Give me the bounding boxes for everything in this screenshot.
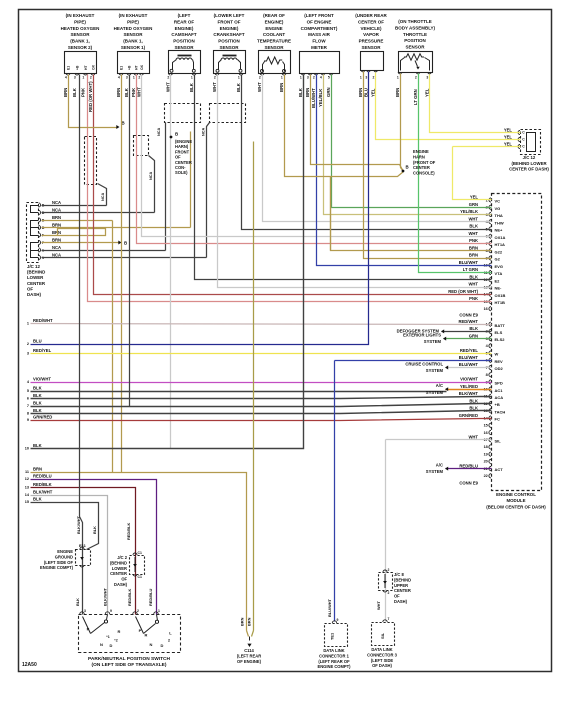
svg-text:5: 5 (27, 389, 29, 393)
svg-text:2: 2 (415, 76, 417, 80)
svg-text:BRN: BRN (52, 222, 61, 227)
svg-text:1: 1 (82, 76, 84, 80)
svg-text:A/C: A/C (436, 462, 443, 467)
svg-text:OD2: OD2 (495, 366, 504, 371)
svg-text:YEL/RED: YEL/RED (460, 384, 478, 389)
svg-text:BODY ASSEMBLY): BODY ASSEMBLY) (395, 25, 436, 30)
svg-text:BLK: BLK (236, 82, 241, 92)
svg-text:PNK: PNK (469, 238, 478, 243)
svg-text:16: 16 (484, 431, 488, 435)
svg-text:RED/BLK: RED/BLK (33, 482, 52, 487)
svg-text:RED (OR WHT): RED (OR WHT) (88, 81, 93, 112)
svg-text:NCA: NCA (52, 245, 61, 250)
svg-text:BLU/WHT: BLU/WHT (459, 260, 479, 265)
svg-text:MODULE: MODULE (506, 498, 525, 503)
svg-text:C114: C114 (244, 648, 254, 653)
svg-text:FC: FC (495, 417, 500, 422)
svg-text:(BANK 1,: (BANK 1, (70, 39, 90, 44)
svg-text:SYSTEM: SYSTEM (424, 339, 442, 344)
svg-text:C1: C1 (138, 551, 142, 555)
svg-text:ENGINE: ENGINE (413, 149, 429, 154)
svg-text:CENTER OF: CENTER OF (358, 19, 384, 24)
svg-text:D: D (161, 643, 164, 648)
svg-text:DASH): DASH) (27, 292, 41, 297)
svg-text:WHT: WHT (212, 82, 217, 92)
svg-text:12: 12 (25, 477, 29, 481)
svg-text:RED/WHT: RED/WHT (33, 318, 53, 323)
svg-text:J/C 8: J/C 8 (394, 572, 405, 577)
svg-text:ACT: ACT (495, 467, 504, 472)
svg-text:REV: REV (495, 359, 504, 364)
svg-text:SIL: SIL (380, 632, 385, 639)
svg-text:CONN E9: CONN E9 (459, 481, 478, 486)
svg-text:GRN: GRN (469, 333, 478, 338)
svg-text:SPD: SPD (495, 381, 503, 386)
svg-text:SENSOR 1): SENSOR 1) (121, 45, 146, 50)
svg-text:BLK: BLK (33, 401, 42, 406)
svg-text:ELS: ELS (495, 330, 503, 335)
svg-text:+B: +B (75, 65, 79, 70)
svg-text:BLK/WHT: BLK/WHT (459, 391, 479, 396)
svg-text:R: R (118, 629, 121, 634)
svg-text:SYSTEM: SYSTEM (426, 368, 444, 373)
svg-text:18: 18 (484, 445, 488, 449)
svg-text:REAR OF: REAR OF (174, 19, 195, 24)
svg-text:CENTER: CENTER (394, 588, 411, 593)
svg-text:9: 9 (337, 618, 339, 622)
svg-text:NCA: NCA (202, 128, 206, 136)
svg-text:THROTTLE: THROTTLE (403, 32, 427, 37)
svg-text:VTA: VTA (495, 271, 503, 276)
svg-text:ENGINE COMPT): ENGINE COMPT) (318, 664, 352, 669)
svg-text:7: 7 (388, 617, 390, 621)
svg-text:SYSTEM: SYSTEM (426, 469, 444, 474)
svg-text:SENSOR 2): SENSOR 2) (68, 45, 93, 50)
svg-text:5: 5 (328, 76, 330, 80)
svg-text:(LEFT SIDE: (LEFT SIDE (371, 658, 394, 663)
svg-text:3: 3 (74, 76, 76, 80)
svg-text:G2: G2 (495, 257, 501, 262)
svg-text:GRN: GRN (326, 87, 331, 97)
svg-text:SOLE): SOLE) (175, 170, 188, 175)
svg-text:YEL/BLK: YEL/BLK (460, 209, 478, 214)
svg-text:TACH: TACH (495, 409, 506, 414)
svg-text:LT GRN: LT GRN (463, 267, 478, 272)
svg-text:BLK: BLK (72, 87, 77, 97)
svg-text:6: 6 (27, 397, 29, 401)
svg-text:4: 4 (65, 76, 67, 80)
svg-text:2: 2 (388, 591, 390, 595)
svg-text:20: 20 (484, 460, 488, 464)
svg-text:CONNECTOR 1: CONNECTOR 1 (319, 653, 349, 658)
svg-text:2: 2 (214, 76, 216, 80)
svg-text:2: 2 (259, 76, 261, 80)
svg-text:1: 1 (238, 76, 240, 80)
svg-text:CENTER: CENTER (413, 165, 430, 170)
svg-text:VEHICLE): VEHICLE) (360, 26, 382, 31)
svg-text:GRN/RED: GRN/RED (33, 415, 52, 420)
svg-text:RED/BLU: RED/BLU (148, 589, 153, 606)
svg-text:BLK: BLK (469, 406, 478, 411)
svg-text:(LOWER LEFT: (LOWER LEFT (214, 13, 245, 18)
svg-text:BRN: BRN (63, 88, 68, 97)
svg-text:ENGINE): ENGINE) (175, 26, 194, 31)
svg-text:WHT: WHT (257, 82, 262, 92)
svg-text:4: 4 (320, 76, 322, 80)
svg-text:POSITION: POSITION (173, 39, 195, 44)
svg-text:YEL: YEL (504, 141, 513, 146)
svg-text:(IN EXHAUST: (IN EXHAUST (66, 13, 95, 18)
svg-text:CRUISE CONTROL: CRUISE CONTROL (405, 361, 443, 366)
svg-text:1: 1 (158, 609, 160, 613)
svg-text:PRESSURE: PRESSURE (359, 39, 384, 44)
svg-text:ENGINE: ENGINE (57, 549, 73, 554)
svg-text:3: 3 (426, 76, 428, 80)
svg-text:BLK/WHT: BLK/WHT (76, 515, 81, 534)
svg-text:CONN E9: CONN E9 (459, 313, 478, 318)
svg-text:W: W (495, 352, 499, 357)
svg-text:BLU/WHT: BLU/WHT (311, 88, 316, 108)
svg-text:YEL: YEL (425, 88, 430, 97)
svg-text:(LEFT REAR OF: (LEFT REAR OF (318, 659, 350, 664)
svg-text:ACA: ACA (495, 395, 504, 400)
svg-text:SENSOR: SENSOR (123, 32, 143, 37)
svg-text:BRN: BRN (52, 215, 61, 220)
svg-text:DASH): DASH) (394, 599, 408, 604)
svg-text:NCA: NCA (52, 207, 61, 212)
svg-text:HT1A: HT1A (495, 242, 506, 247)
svg-text:WHT: WHT (468, 282, 478, 287)
svg-text:13: 13 (25, 486, 29, 490)
svg-text:BLU/WHT: BLU/WHT (327, 598, 332, 617)
svg-text:NE+: NE+ (495, 228, 504, 233)
svg-text:BRN: BRN (52, 230, 61, 235)
svg-text:(BEHIND: (BEHIND (27, 270, 45, 275)
svg-text:HEATED OXYGEN: HEATED OXYGEN (61, 26, 100, 31)
svg-text:POSITION: POSITION (218, 39, 240, 44)
svg-text:LOWER: LOWER (27, 275, 44, 280)
svg-text:BRN: BRN (33, 467, 42, 472)
svg-text:BRN: BRN (279, 83, 284, 92)
svg-text:OF: OF (121, 577, 127, 582)
svg-text:2: 2 (138, 76, 140, 80)
svg-text:BRN: BRN (395, 88, 400, 97)
svg-text:BRN: BRN (469, 245, 478, 250)
svg-text:BLK/WHT: BLK/WHT (103, 587, 108, 606)
svg-text:GRN/RED: GRN/RED (459, 413, 478, 418)
svg-text:*1: *1 (106, 635, 109, 639)
svg-text:LOWER: LOWER (112, 566, 127, 571)
svg-text:1: 1 (360, 76, 362, 80)
svg-text:BLK: BLK (33, 443, 42, 448)
svg-text:TEMPERATURE: TEMPERATURE (257, 39, 291, 44)
svg-text:(BANK 1,: (BANK 1, (123, 39, 143, 44)
svg-text:HT1B: HT1B (495, 300, 506, 305)
svg-text:BRN: BRN (116, 88, 121, 97)
svg-text:*2: *2 (114, 639, 117, 643)
svg-text:3: 3 (307, 76, 309, 80)
svg-text:J/C 2: J/C 2 (117, 555, 128, 560)
svg-text:15: 15 (484, 424, 488, 428)
svg-text:(BEHIND: (BEHIND (394, 577, 411, 582)
svg-text:OX1A: OX1A (495, 235, 506, 240)
svg-text:NCA: NCA (52, 200, 61, 205)
svg-text:POSITION: POSITION (404, 38, 426, 43)
svg-text:VAPOR: VAPOR (363, 32, 379, 37)
svg-text:SENSOR: SENSOR (361, 45, 381, 50)
svg-text:LT GRN: LT GRN (413, 89, 418, 105)
svg-text:GRN: GRN (469, 202, 478, 207)
svg-text:7: 7 (27, 404, 29, 408)
svg-text:BLK: BLK (469, 326, 478, 331)
svg-text:(BELOW CENTER OF DASH): (BELOW CENTER OF DASH) (486, 504, 546, 509)
svg-text:AC1: AC1 (495, 388, 504, 393)
svg-text:RED/BLU: RED/BLU (33, 474, 52, 479)
svg-text:VIO/WHT: VIO/WHT (460, 377, 478, 382)
svg-text:ENGINE CONTROL: ENGINE CONTROL (496, 492, 536, 497)
svg-text:NCA: NCA (52, 252, 61, 257)
svg-text:4: 4 (118, 76, 120, 80)
svg-text:E1: E1 (66, 66, 70, 70)
svg-text:BLK: BLK (33, 393, 42, 398)
svg-text:(ON LEFT SIDE OF TRANSAXLE): (ON LEFT SIDE OF TRANSAXLE) (92, 662, 167, 668)
svg-text:NCA: NCA (101, 193, 105, 201)
svg-text:(FRONT OF: (FRONT OF (413, 160, 436, 165)
svg-text:16: 16 (484, 307, 488, 311)
svg-text:CONNECTOR 3: CONNECTOR 3 (367, 652, 397, 657)
svg-text:(BEHIND LOWER: (BEHIND LOWER (511, 161, 547, 166)
svg-text:HEATED OXYGEN: HEATED OXYGEN (114, 26, 153, 31)
svg-text:SIL: SIL (495, 438, 502, 443)
svg-text:SENSOR: SENSOR (219, 45, 239, 50)
svg-text:BLU: BLU (33, 339, 42, 344)
svg-text:TE1: TE1 (330, 632, 335, 640)
svg-text:BLK: BLK (469, 224, 478, 229)
svg-text:(IN EXHAUST: (IN EXHAUST (119, 13, 148, 18)
svg-text:1: 1 (281, 76, 283, 80)
svg-text:BLK: BLK (124, 87, 129, 97)
svg-text:N: N (150, 642, 153, 647)
svg-text:(LEFT REAR: (LEFT REAR (237, 653, 261, 658)
svg-text:10: 10 (25, 447, 29, 451)
svg-text:SENSOR: SENSOR (174, 45, 194, 50)
svg-text:WHT: WHT (468, 434, 478, 439)
svg-text:N: N (100, 642, 103, 647)
svg-text:CONSOLE): CONSOLE) (413, 171, 435, 176)
svg-text:B: B (406, 165, 409, 170)
svg-text:BLU/WHT: BLU/WHT (459, 355, 479, 360)
svg-text:BATT: BATT (495, 323, 506, 328)
svg-text:2: 2 (313, 76, 315, 80)
svg-text:2: 2 (373, 76, 375, 80)
svg-text:PIPE): PIPE) (127, 19, 139, 24)
svg-text:WHT: WHT (468, 231, 478, 236)
svg-text:BLK: BLK (33, 386, 42, 391)
svg-text:COOLANT: COOLANT (263, 32, 285, 37)
svg-text:J/C 12: J/C 12 (523, 155, 536, 160)
svg-text:1: 1 (397, 76, 399, 80)
svg-text:PIPE): PIPE) (74, 19, 86, 24)
svg-text:BLK/WHT: BLK/WHT (33, 490, 53, 495)
svg-text:B: B (124, 241, 127, 246)
svg-text:DATA LINK: DATA LINK (371, 647, 392, 652)
svg-text:METER: METER (311, 45, 328, 50)
svg-text:BLU: BLU (364, 88, 369, 97)
svg-text:2: 2 (137, 609, 139, 613)
svg-text:BRN: BRN (247, 617, 252, 626)
svg-text:ENGINE): ENGINE) (265, 19, 284, 24)
svg-text:2: 2 (167, 76, 169, 80)
svg-text:VG: VG (495, 206, 501, 211)
svg-text:BRN: BRN (358, 88, 363, 97)
svg-text:G22: G22 (495, 249, 503, 254)
svg-text:THA: THA (495, 213, 503, 218)
svg-text:BLK: BLK (92, 526, 97, 534)
svg-text:OX: OX (91, 64, 95, 70)
svg-text:12A50: 12A50 (22, 662, 37, 668)
svg-text:WHT: WHT (468, 216, 478, 221)
svg-text:11: 11 (25, 470, 29, 474)
svg-text:YEL: YEL (504, 127, 513, 132)
svg-text:WHT: WHT (376, 601, 381, 610)
svg-text:D: D (110, 643, 113, 648)
svg-text:2: 2 (27, 342, 29, 346)
svg-text:15: 15 (25, 500, 29, 504)
svg-text:DASH): DASH) (114, 582, 128, 587)
svg-text:VC: VC (495, 199, 501, 204)
svg-text:ENGINE: ENGINE (265, 26, 282, 31)
svg-text:CRANKSHAFT: CRANKSHAFT (213, 32, 244, 37)
svg-text:E2: E2 (495, 278, 501, 283)
svg-text:BLU/WHT: BLU/WHT (459, 362, 479, 367)
svg-text:3: 3 (126, 76, 128, 80)
svg-text:2: 2 (90, 76, 92, 80)
svg-text:OF DASH): OF DASH) (372, 663, 392, 668)
svg-text:9: 9 (27, 418, 29, 422)
svg-text:NCA: NCA (149, 172, 153, 180)
svg-text:CENTER OF DASH): CENTER OF DASH) (509, 167, 549, 172)
svg-text:BLK: BLK (469, 274, 478, 279)
svg-text:BLK: BLK (33, 408, 42, 413)
svg-text:MASS AIR: MASS AIR (308, 32, 331, 37)
svg-text:19: 19 (484, 452, 488, 456)
svg-text:RED/YEL: RED/YEL (33, 348, 52, 353)
svg-text:22: 22 (484, 474, 488, 478)
svg-text:FLOW: FLOW (312, 39, 326, 44)
svg-text:1: 1 (133, 76, 135, 80)
svg-text:BLK: BLK (75, 598, 80, 606)
svg-text:UPPER: UPPER (394, 583, 408, 588)
svg-text:R: R (145, 633, 148, 638)
svg-text:(LEFT: (LEFT (178, 13, 191, 18)
svg-text:CAMSHAFT: CAMSHAFT (171, 32, 196, 37)
svg-text:B: B (175, 132, 178, 137)
svg-text:BLK: BLK (469, 398, 478, 403)
svg-text:YEL: YEL (504, 134, 513, 139)
svg-text:BRN: BRN (469, 253, 478, 258)
svg-text:WHT: WHT (166, 82, 171, 92)
svg-text:3: 3 (84, 609, 86, 613)
svg-text:BRN: BRN (240, 617, 245, 626)
svg-text:VIO/WHT: VIO/WHT (33, 377, 51, 382)
svg-text:1: 1 (300, 76, 302, 80)
svg-text:3: 3 (365, 76, 367, 80)
svg-text:BRN: BRN (305, 88, 310, 97)
svg-text:SYSTEM: SYSTEM (426, 390, 444, 395)
svg-text:OF: OF (394, 594, 400, 599)
svg-text:(BEHIND: (BEHIND (110, 560, 127, 565)
svg-text:SENSOR: SENSOR (405, 45, 425, 50)
svg-text:RED/BLU: RED/BLU (459, 463, 478, 468)
svg-text:(UNDER REAR: (UNDER REAR (355, 13, 387, 18)
svg-text:(REAR OF: (REAR OF (263, 13, 285, 18)
svg-text:EXTERIOR LIGHTS: EXTERIOR LIGHTS (403, 332, 441, 337)
svg-text:CENTER: CENTER (27, 281, 46, 286)
svg-text:OF: OF (27, 286, 33, 291)
svg-text:FRONT OF: FRONT OF (218, 19, 241, 24)
svg-text:RED/WHT: RED/WHT (458, 319, 478, 324)
svg-text:BLK: BLK (298, 87, 303, 97)
svg-text:NCA: NCA (157, 128, 161, 136)
svg-text:RED/YEL: RED/YEL (460, 348, 479, 353)
svg-text:HARN: HARN (413, 154, 425, 159)
svg-text:OF ENGINE): OF ENGINE) (237, 659, 262, 664)
svg-text:PNK: PNK (131, 87, 136, 97)
svg-text:2: 2 (388, 568, 390, 572)
svg-text:P: P (87, 627, 90, 632)
svg-text:SENSOR: SENSOR (264, 45, 284, 50)
svg-text:(ON THROTTLE: (ON THROTTLE (398, 19, 432, 24)
svg-text:RED (OR WHT): RED (OR WHT) (448, 289, 478, 294)
svg-text:THW: THW (495, 220, 504, 225)
svg-text:CENTER: CENTER (110, 571, 127, 576)
svg-text:OX: OX (140, 64, 144, 70)
svg-text:EVG: EVG (495, 264, 503, 269)
svg-text:A/C: A/C (436, 383, 443, 388)
svg-text:1: 1 (27, 322, 29, 326)
svg-text:ENGINE COMPT): ENGINE COMPT) (40, 565, 74, 570)
svg-text:SENSOR: SENSOR (70, 32, 90, 37)
svg-text:(LEFT SIDE OF: (LEFT SIDE OF (44, 560, 74, 565)
svg-text:BRN: BRN (52, 237, 61, 242)
svg-text:P: P (139, 628, 142, 633)
svg-text:9: 9 (110, 609, 112, 613)
svg-text:NE-: NE- (495, 286, 503, 291)
svg-text:PARK/NEUTRAL POSITION SWITCH: PARK/NEUTRAL POSITION SWITCH (88, 656, 170, 662)
svg-text:DATA LINK: DATA LINK (323, 648, 344, 653)
svg-text:1: 1 (191, 76, 193, 80)
svg-text:ENGINE): ENGINE) (220, 26, 239, 31)
svg-text:YEL/BLK: YEL/BLK (318, 88, 323, 107)
svg-text:WHT: WHT (137, 87, 142, 97)
svg-text:RED/BLK: RED/BLK (127, 589, 132, 606)
svg-text:8: 8 (486, 373, 488, 377)
svg-text:BLK: BLK (189, 82, 194, 92)
svg-text:BLK: BLK (33, 497, 42, 502)
svg-text:COMPARTMENT): COMPARTMENT) (301, 26, 338, 31)
svg-text:8: 8 (27, 412, 29, 416)
svg-text:+B: +B (495, 402, 500, 407)
svg-text:GROUND: GROUND (55, 554, 73, 559)
svg-text:PNK: PNK (469, 296, 478, 301)
svg-text:E1: E1 (119, 66, 123, 70)
svg-text:OF ENGINE: OF ENGINE (307, 19, 332, 24)
svg-text:C1: C1 (138, 575, 142, 579)
svg-text:+B: +B (127, 65, 131, 70)
svg-text:J/C 12: J/C 12 (27, 264, 40, 269)
svg-text:OX1B: OX1B (495, 293, 506, 298)
svg-text:3: 3 (27, 351, 29, 355)
